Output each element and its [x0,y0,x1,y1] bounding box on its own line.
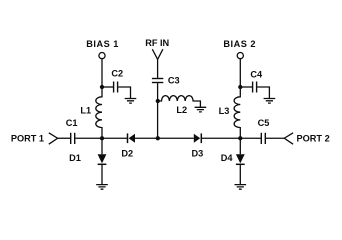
ground (L2) [195,107,207,112]
wire C5 to port2 [266,137,284,139]
node C junction dot [238,136,242,140]
node B2 junction dot [238,85,242,89]
capacitor C2 [113,82,115,93]
wire node C to C5 [240,137,261,139]
port 1 terminal symbol [49,133,58,144]
node M junction dot [156,99,160,103]
wire bias2 to node B2 [239,59,241,87]
node A junction dot [100,136,104,140]
diode D1 [98,154,107,163]
wire D1 to ground [101,164,103,184]
wire node A to D2 [102,137,127,139]
capacitor C3 [152,78,163,80]
svg-text:D4: D4 [221,153,234,163]
ground (C4) [264,99,276,104]
node RF junction dot [156,136,160,140]
wire C3 to node M [157,83,159,101]
wire D2 to node RF [135,137,158,139]
svg-text:D3: D3 [192,148,204,158]
svg-text:C5: C5 [258,118,270,128]
svg-text:C4: C4 [250,69,263,79]
svg-text:L3: L3 [219,106,230,116]
svg-text:BIAS 2: BIAS 2 [223,39,256,49]
svg-text:C2: C2 [111,68,123,78]
diode D2 [127,133,129,143]
wire C4 to ground [257,87,269,98]
svg-text:L2: L2 [176,105,187,115]
bias 2 terminal circle [237,53,243,59]
wire node M to rail [157,101,159,138]
ground (C2) [125,99,137,104]
wire port1 to C1 [58,137,70,139]
capacitor C1 [70,133,72,144]
diode D3 [194,134,200,143]
wire C1 to node A [75,137,102,139]
svg-text:RF IN: RF IN [145,38,169,48]
inductor L3 [234,87,240,138]
wire node C to D4 [239,138,241,154]
bias 1 terminal circle [99,53,105,59]
wire D3 to node C [201,137,240,139]
capacitor C5 [260,133,262,144]
ground (D1) [96,185,108,190]
inductor L1 [96,87,102,138]
node B1 junction dot [100,85,104,89]
svg-text:C1: C1 [66,118,78,128]
capacitor C4 [252,82,254,93]
wire D4 to ground [239,164,241,184]
inductor L2 [158,96,201,107]
rf in terminal symbol [152,49,163,59]
svg-text:D1: D1 [69,153,81,163]
wire node A to D1 [101,138,103,154]
wire node B2 to C4 [240,86,252,88]
wire bias1 to node B1 [101,59,103,87]
svg-text:C3: C3 [168,75,180,85]
port 2 terminal symbol [284,133,293,144]
ground (D4) [235,185,247,190]
diode D4 [236,154,245,163]
svg-text:PORT 2: PORT 2 [297,133,330,143]
svg-text:PORT 1: PORT 1 [11,133,44,143]
svg-text:BIAS 1: BIAS 1 [86,39,119,49]
wire C2 to ground [118,87,130,98]
wire rfin to C3 [157,59,159,78]
wire node B1 to C2 [102,86,113,88]
wire node RF to D3 [158,137,194,139]
svg-text:D2: D2 [121,148,133,158]
svg-text:L1: L1 [80,106,91,116]
